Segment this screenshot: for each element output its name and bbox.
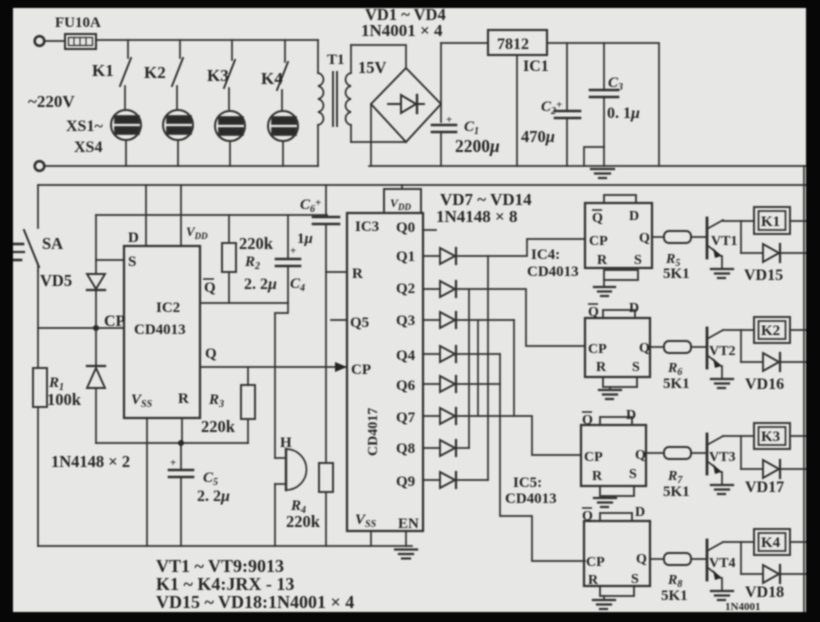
capacitor C4 2.2u — [276, 215, 300, 303]
svg-text:CP: CP — [104, 313, 126, 330]
regulator IC1 7812 — [488, 30, 547, 55]
ground at C3 — [591, 169, 614, 178]
wire to +12V bus — [790, 329, 806, 331]
diode VD13 (from Q8) — [423, 440, 469, 456]
bridge rectifier VD1-VD4 — [371, 68, 441, 142]
transformer T1 primary — [318, 40, 323, 166]
flip-flop IC5a (half CD4013) — [581, 417, 806, 507]
svg-text:VD15: VD15 — [744, 267, 783, 284]
svg-text:1N4148 × 2: 1N4148 × 2 — [51, 452, 130, 471]
transistor VT2 — [706, 328, 709, 368]
svg-text:K1: K1 — [92, 61, 114, 80]
svg-text:SA: SA — [42, 234, 63, 253]
wire Q output — [646, 452, 664, 454]
svg-text:D: D — [626, 408, 636, 423]
svg-text:5K1: 5K1 — [663, 376, 690, 392]
svg-text:Q: Q — [204, 280, 216, 296]
bottom ground rail — [38, 545, 412, 547]
switch K4 — [277, 40, 288, 111]
svg-text:220k: 220k — [201, 417, 236, 436]
ground — [711, 485, 733, 494]
transformer core — [332, 72, 334, 126]
wire Qbar-D feedback loop — [600, 513, 632, 521]
svg-text:+: + — [170, 457, 176, 469]
svg-text:0. 1μ: 0. 1μ — [607, 105, 640, 122]
svg-text:S: S — [128, 254, 136, 270]
wire emitter — [707, 567, 721, 578]
svg-text:K2: K2 — [761, 323, 780, 339]
svg-text:D: D — [635, 505, 645, 520]
fuse FU10A — [65, 34, 96, 49]
capacitor C1 2200u — [432, 125, 456, 132]
diode VD14 (from Q9) — [423, 472, 488, 488]
svg-text:Q8: Q8 — [396, 441, 415, 457]
svg-text:H: H — [280, 435, 292, 451]
svg-text:VD18: VD18 — [745, 584, 784, 601]
svg-text:Q3: Q3 — [396, 313, 415, 329]
svg-text:Q4: Q4 — [396, 348, 416, 364]
wire to +12V bus — [790, 435, 806, 437]
diode VD11 (from Q6) — [423, 376, 500, 392]
diode VD9 (from Q3) — [423, 312, 514, 328]
relay coil K1 — [754, 207, 790, 234]
svg-text:XS4: XS4 — [74, 139, 102, 156]
wire VD5 top — [95, 215, 97, 274]
S node line — [96, 214, 327, 216]
DC ground rail — [369, 165, 806, 167]
flip flop pin labels — [589, 209, 783, 284]
pushbutton SA — [13, 230, 39, 267]
relay coil K4 — [754, 529, 790, 555]
svg-text:VT4: VT4 — [709, 556, 735, 571]
transistor VT4 — [706, 540, 709, 580]
transistor VT3 — [706, 434, 709, 474]
wire — [740, 542, 742, 574]
socket XS4 — [268, 111, 298, 166]
wire R-S link — [604, 270, 638, 280]
ground — [594, 498, 616, 507]
svg-text:Q9: Q9 — [396, 474, 415, 490]
wire to +12V bus — [790, 220, 806, 222]
switch K3 — [224, 40, 235, 111]
resistor R4 220k — [319, 463, 333, 492]
diode VD15 — [763, 244, 779, 262]
VSS stub — [146, 418, 148, 546]
capacitor C2 470u — [555, 43, 580, 166]
flip-flop IC4a (half CD4013) — [585, 195, 806, 296]
svg-text:CP: CP — [584, 450, 603, 465]
svg-text:VD16: VD16 — [745, 376, 784, 393]
svg-text:IC2: IC2 — [156, 300, 180, 316]
svg-text:VT1 ~ VT9:9013: VT1 ~ VT9:9013 — [156, 556, 284, 576]
relay coil K2 — [754, 317, 790, 343]
wire matrix column A — [468, 289, 470, 448]
svg-text:15V: 15V — [358, 58, 387, 77]
diode VD17 — [763, 460, 779, 478]
svg-text:100k: 100k — [47, 390, 82, 409]
svg-text:Q2: Q2 — [396, 281, 415, 297]
Qbar line — [200, 302, 288, 304]
ground — [711, 379, 733, 388]
capacitor C5 2.2u — [169, 443, 193, 546]
svg-text:D: D — [128, 230, 139, 246]
svg-text:1N4001: 1N4001 — [725, 601, 760, 613]
wire emitter — [707, 461, 721, 472]
svg-text:2200μ: 2200μ — [455, 136, 500, 156]
ground — [711, 591, 733, 600]
diode VD18 — [763, 565, 779, 583]
wire base — [691, 452, 707, 454]
diode VD5 — [87, 274, 105, 290]
wire R-S link — [600, 486, 634, 496]
svg-text:IC1: IC1 — [523, 58, 549, 75]
ground — [711, 269, 733, 278]
svg-text:5K1: 5K1 — [661, 588, 688, 604]
svg-text:K1 ~ K4:JRX - 13: K1 ~ K4:JRX - 13 — [156, 574, 294, 594]
resistor R1 100k — [33, 368, 47, 407]
svg-text:Q: Q — [582, 509, 593, 524]
svg-text:R: R — [588, 573, 599, 588]
svg-text:EN: EN — [398, 516, 419, 532]
resistor R8 5K1 — [664, 553, 691, 565]
VDD stub — [180, 185, 182, 246]
svg-text:Q: Q — [635, 448, 646, 463]
capacitor C3 0.1u — [584, 43, 618, 166]
svg-text:R: R — [352, 266, 363, 282]
diode VD12 (from Q7) — [423, 408, 581, 455]
svg-text:VD5: VD5 — [40, 271, 72, 290]
svg-text:R: R — [597, 253, 608, 268]
svg-text:Q: Q — [205, 346, 217, 362]
wire secondary top to bridge — [351, 45, 406, 68]
R pin stub — [181, 418, 183, 443]
switch K1 — [120, 40, 131, 110]
svg-text:S: S — [629, 467, 637, 482]
wire matrix column E — [513, 320, 515, 416]
diode VD7 (from Q1) — [423, 239, 585, 264]
svg-text:5K1: 5K1 — [663, 266, 690, 282]
wire base — [691, 346, 707, 348]
terminal lower — [35, 161, 45, 171]
svg-text:IC5:: IC5: — [513, 475, 542, 491]
wire emitter — [707, 245, 721, 256]
svg-text:1N4001 × 4: 1N4001 × 4 — [361, 21, 443, 40]
svg-text:5K1: 5K1 — [663, 484, 690, 500]
wire R-S link — [600, 586, 634, 596]
svg-text:Q7: Q7 — [396, 410, 416, 426]
wire Q output — [652, 236, 664, 238]
svg-text:CP: CP — [589, 234, 608, 249]
svg-text:CP: CP — [588, 342, 607, 357]
IC3 R branch — [326, 271, 347, 273]
svg-text:7812: 7812 — [497, 36, 529, 53]
wire — [780, 361, 806, 363]
wire — [780, 252, 806, 254]
IC2 CD4013 box — [124, 246, 200, 418]
svg-text:CD4013: CD4013 — [505, 491, 557, 507]
resistor R6 5K1 — [664, 341, 691, 353]
svg-text:S: S — [632, 360, 640, 375]
svg-text:K1: K1 — [761, 214, 780, 230]
transistor VT1 — [706, 218, 709, 258]
svg-text:VD15 ~ VD18:1N4001 × 4: VD15 ~ VD18:1N4001 × 4 — [156, 592, 354, 612]
wire to +12V bus — [790, 541, 806, 543]
ground — [599, 390, 621, 399]
wire matrix column B — [477, 320, 479, 416]
svg-text:1N4148 × 8: 1N4148 × 8 — [436, 207, 517, 226]
wire — [740, 221, 742, 253]
svg-text:T1: T1 — [327, 52, 345, 68]
wire R-S link — [603, 377, 637, 387]
svg-text:Q0: Q0 — [396, 220, 415, 236]
diode VD6 (1N4148) — [95, 328, 97, 366]
wire bottom 220V rail — [44, 165, 318, 167]
svg-text:Q: Q — [588, 305, 599, 320]
wire base — [691, 558, 707, 560]
wire secondary bottom to bridge — [351, 141, 406, 143]
svg-text:CP: CP — [586, 555, 605, 570]
svg-text:XS1~: XS1~ — [66, 118, 103, 135]
ground symbol — [395, 550, 417, 559]
svg-text:Q: Q — [582, 413, 593, 428]
svg-text:K2: K2 — [144, 63, 166, 82]
svg-text:IC3: IC3 — [355, 219, 379, 235]
wire — [44, 40, 65, 42]
socket XS3 — [215, 111, 245, 166]
svg-text:~220V: ~220V — [28, 92, 75, 111]
svg-text:FU10A: FU10A — [55, 15, 101, 31]
svg-text:IC4:: IC4: — [531, 247, 560, 263]
transformer T1 secondary — [346, 45, 351, 142]
svg-text:K3: K3 — [761, 429, 780, 445]
svg-text:470μ: 470μ — [521, 127, 555, 146]
diode VD8 (from Q2) — [423, 281, 585, 346]
wire bridge minus down — [370, 104, 372, 166]
capacitor C6 1u — [313, 185, 339, 546]
wire Q output — [650, 558, 664, 560]
Q5 stub — [331, 319, 347, 321]
Q0 stub — [423, 229, 436, 231]
terminal upper — [35, 36, 45, 46]
resistor R3 220k — [241, 367, 255, 443]
svg-text:K4: K4 — [761, 535, 781, 551]
buzzer H branch — [275, 303, 306, 546]
flip-flop IC5b (half CD4013) — [584, 513, 806, 609]
VDD box — [384, 189, 421, 213]
svg-text:R: R — [592, 469, 603, 484]
arrow into CP — [335, 362, 347, 372]
svg-text:CD4017: CD4017 — [366, 408, 381, 456]
ground — [593, 600, 615, 609]
wire — [740, 436, 742, 469]
svg-text:CD4013: CD4013 — [134, 322, 186, 338]
wire emitter — [707, 355, 721, 366]
wire — [780, 468, 806, 470]
svg-text:CP: CP — [351, 362, 371, 378]
svg-text:VT3: VT3 — [709, 450, 735, 465]
svg-text:2. 2μ: 2. 2μ — [244, 276, 277, 293]
svg-text:220k: 220k — [239, 234, 274, 253]
bottom note text — [156, 556, 354, 612]
svg-text:S: S — [631, 572, 639, 587]
svg-text:K4: K4 — [261, 69, 283, 88]
svg-text:K3: K3 — [207, 66, 229, 85]
diode VD10 (from Q4) — [423, 346, 500, 362]
right edge 12V bus — [803, 166, 805, 612]
wire base — [691, 236, 707, 238]
svg-text:VT2: VT2 — [709, 344, 735, 359]
diode VD16 — [763, 353, 779, 371]
+12V rail — [547, 43, 659, 166]
svg-text:Q1: Q1 — [396, 249, 415, 265]
CP node line — [38, 327, 124, 329]
R node line — [96, 442, 248, 444]
resistor R5 5K1 — [664, 231, 691, 243]
wire top 220V rail — [97, 39, 318, 41]
wire Q output — [650, 346, 664, 348]
svg-text:2. 2μ: 2. 2μ — [197, 488, 230, 505]
svg-text:R: R — [596, 360, 607, 375]
socket XS1 — [111, 110, 141, 166]
svg-text:1μ: 1μ — [297, 231, 313, 247]
relay coil K3 — [754, 423, 790, 449]
svg-text:Q: Q — [592, 211, 603, 226]
EN stub — [405, 531, 407, 546]
D stub — [145, 185, 147, 246]
svg-text:CD4013: CD4013 — [527, 264, 579, 280]
wire matrix column C — [487, 256, 489, 480]
svg-text:220k: 220k — [286, 512, 321, 531]
VDD rail — [38, 184, 806, 186]
left vertical wire — [37, 185, 39, 228]
svg-text:VT1: VT1 — [711, 234, 737, 249]
svg-text:Q: Q — [636, 552, 647, 567]
7812 gnd pin — [516, 55, 518, 166]
wire Qbar-D feedback loop — [603, 310, 635, 318]
socket XS2 — [163, 110, 193, 166]
svg-text:Q5: Q5 — [350, 315, 369, 331]
wire bridge plus — [440, 43, 442, 122]
svg-text:R: R — [178, 391, 189, 407]
top +rail to 7812 — [441, 42, 488, 44]
svg-text:VD17: VD17 — [745, 479, 784, 496]
Q line IC2 to IC3 CP — [200, 366, 347, 368]
VSS stub — [370, 531, 372, 546]
svg-text:D: D — [629, 301, 639, 316]
wire Qbar-D feedback loop — [604, 195, 636, 203]
svg-text:S: S — [634, 253, 642, 268]
svg-text:D: D — [629, 209, 639, 224]
svg-text:+: + — [290, 245, 296, 257]
S pin branch — [96, 259, 124, 261]
IC3 CD4017 box — [347, 213, 423, 531]
flip-flop IC4b (half CD4013) — [585, 310, 806, 399]
node dot — [93, 325, 99, 331]
svg-text:Q6: Q6 — [396, 378, 416, 394]
switch K2 — [172, 40, 183, 110]
resistor R2 220k — [222, 215, 236, 303]
wire Qbar-D feedback loop — [600, 417, 632, 425]
wire — [780, 573, 806, 575]
ground — [594, 287, 615, 296]
svg-text:Q: Q — [639, 231, 650, 246]
resistor R7 5K1 — [664, 447, 691, 459]
wire matrix column D to IC5b CP — [500, 354, 585, 561]
svg-text:Q: Q — [639, 341, 650, 356]
svg-text:+: + — [446, 114, 452, 126]
wire — [740, 330, 742, 362]
